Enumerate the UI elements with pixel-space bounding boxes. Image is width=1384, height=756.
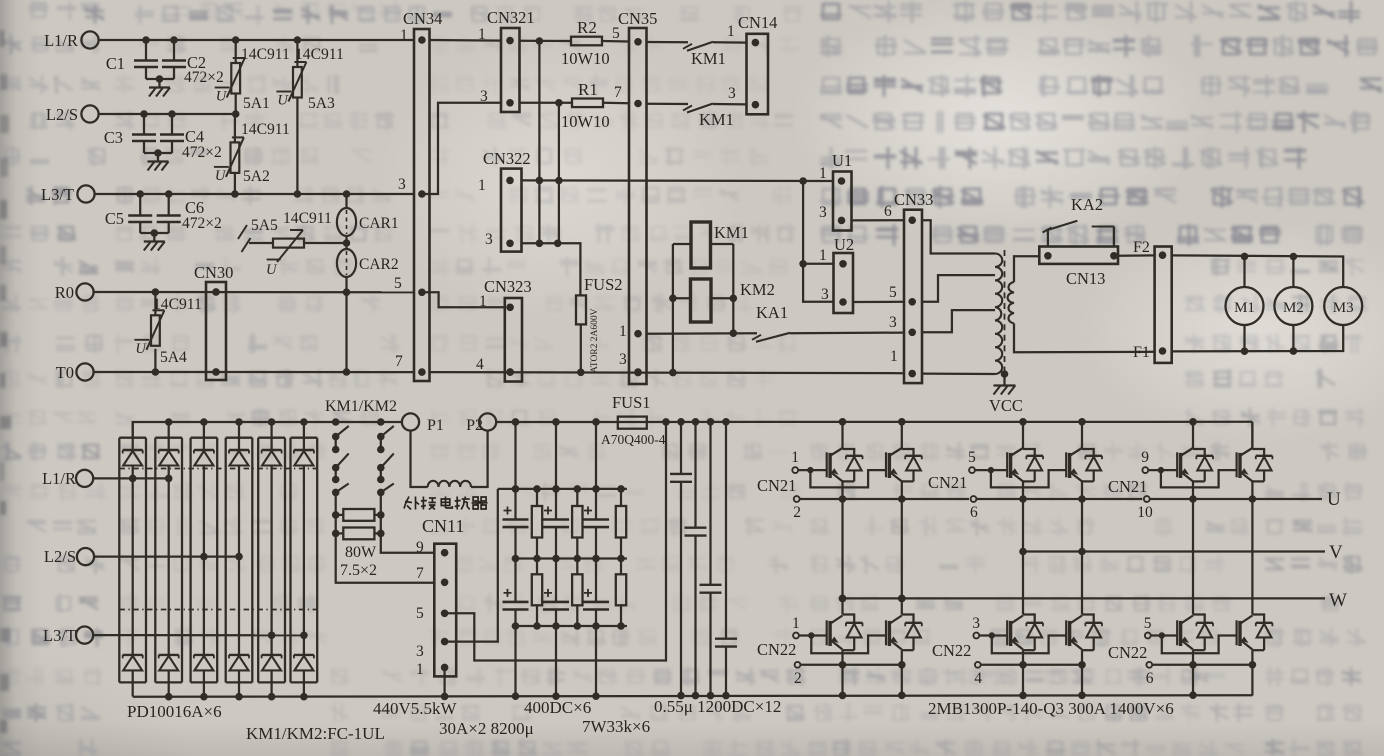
svg-text:440V5.5kW: 440V5.5kW	[373, 699, 458, 718]
pin 1	[752, 39, 760, 47]
svg-text:CN322: CN322	[483, 149, 531, 168]
svg-text:1: 1	[791, 449, 799, 466]
svg-text:7: 7	[614, 84, 622, 101]
capacitor C5	[139, 194, 141, 216]
junction	[152, 288, 160, 296]
contact chain KM1/KM2	[332, 418, 340, 426]
svg-text:10W10: 10W10	[561, 49, 610, 68]
wire feed from plus bus	[555, 422, 557, 489]
svg-text:3: 3	[398, 176, 406, 193]
reactor (external)	[428, 481, 471, 487]
pin 7	[634, 100, 642, 108]
svg-text:5: 5	[968, 449, 976, 466]
svg-text:CAR2: CAR2	[359, 256, 399, 273]
connector CN14	[747, 34, 769, 115]
wire CN11-5 to plus bus	[445, 422, 666, 661]
svg-text:472×2: 472×2	[184, 69, 224, 86]
pin 1	[506, 177, 514, 185]
wire feed from plus bus	[514, 422, 516, 489]
contact KM1 row1	[683, 44, 692, 49]
svg-text:3: 3	[619, 351, 627, 368]
resistor charge R 80W b	[343, 528, 374, 540]
diode D4 bottom	[229, 654, 249, 656]
diode module D4	[226, 437, 253, 439]
varistor 5A1	[235, 40, 237, 63]
varistor 5A2	[234, 114, 236, 142]
pin 1	[506, 304, 514, 312]
wire emitter row group2	[976, 498, 1142, 500]
svg-text:3: 3	[821, 286, 829, 303]
pin 2	[1110, 252, 1118, 260]
emitter pin CN21-6	[971, 496, 977, 502]
svg-text:KM1/KM2: KM1/KM2	[325, 398, 397, 415]
svg-text:5A4: 5A4	[160, 349, 187, 366]
bleed resistor lower 1	[536, 559, 538, 575]
svg-text:CN22: CN22	[757, 640, 796, 659]
wire feed to minus bus	[595, 626, 597, 696]
svg-text:PD10016A×6: PD10016A×6	[127, 702, 222, 721]
wire module 1 anode lead	[132, 670, 134, 696]
svg-text:5: 5	[1144, 615, 1152, 632]
ground VCC	[1003, 374, 1005, 386]
svg-text:5: 5	[612, 25, 620, 42]
svg-text:U: U	[215, 168, 227, 184]
capacitor C1	[145, 40, 147, 61]
varistor 5A4	[154, 292, 156, 315]
wire coil right vertical	[732, 244, 734, 333]
svg-text:CN22: CN22	[932, 641, 971, 660]
terminal L1/R	[81, 31, 98, 48]
svg-text:14C911: 14C911	[295, 46, 344, 63]
emitter feet group1	[841, 650, 843, 695]
junction	[268, 632, 276, 640]
cap bank bottom rail	[512, 625, 627, 627]
wire	[345, 236, 347, 249]
wire phase T	[93, 634, 304, 636]
svg-text:1: 1	[727, 23, 735, 40]
pin 1	[1044, 252, 1052, 260]
diode D5 top	[270, 422, 272, 450]
wire emitter row lower group1	[800, 664, 901, 666]
capacitor C6	[168, 194, 170, 216]
svg-text:3: 3	[485, 231, 493, 248]
pin 7	[418, 368, 426, 376]
svg-text:P1: P1	[427, 417, 444, 434]
svg-text:1: 1	[890, 348, 898, 365]
connector U2	[834, 253, 854, 313]
current sensor CAR2	[337, 249, 356, 277]
gate tie module b lower group1	[811, 636, 886, 654]
svg-text:U: U	[216, 89, 228, 105]
svg-text:KM1: KM1	[714, 223, 749, 242]
svg-text:14C911: 14C911	[153, 296, 202, 313]
wire motor stubs	[1243, 256, 1245, 287]
connector CN321	[501, 28, 520, 112]
wire to KM1 contact	[647, 41, 689, 44]
svg-text:KM1/KM2:FC-1UL: KM1/KM2:FC-1UL	[246, 724, 385, 743]
pin 4	[506, 368, 514, 376]
svg-text:KA2: KA2	[1071, 195, 1103, 214]
spark gap lead	[238, 225, 247, 239]
svg-text:P2: P2	[466, 417, 483, 434]
wire	[790, 331, 904, 334]
pin CN30-1	[212, 288, 220, 296]
diode module D5	[258, 437, 285, 439]
pin 1	[838, 177, 846, 185]
diode module D3	[191, 437, 218, 439]
wire module 4 anode lead	[238, 670, 240, 696]
wire secondary top	[1014, 256, 1039, 282]
wire T0 bus	[94, 371, 414, 373]
wire cap common	[146, 78, 174, 80]
svg-text:U: U	[266, 262, 278, 278]
wire feed to minus bus	[555, 626, 557, 696]
junction	[669, 295, 677, 303]
wire L3/T bus	[95, 193, 414, 195]
svg-text:3: 3	[728, 85, 736, 102]
emitter drop group3	[1192, 499, 1194, 615]
transformer T1 primary	[988, 252, 995, 254]
wire module 2 anode lead	[168, 670, 170, 696]
terminal P1	[402, 413, 419, 430]
wire cap common	[140, 232, 169, 234]
pin 7	[441, 579, 449, 587]
pin 5	[441, 610, 449, 618]
wire to KM1 contact	[647, 103, 689, 106]
diode module D1	[119, 437, 146, 439]
svg-text:5A3: 5A3	[308, 95, 335, 112]
wire emitter row group3	[1150, 498, 1322, 500]
capacitor bank C1 upper	[514, 489, 516, 520]
diode D2 bottom	[159, 654, 179, 656]
gate tie module b lower group2	[992, 636, 1066, 654]
emitter pin CN21-10	[1144, 496, 1150, 502]
wire CN33-1 to transformer bottom	[922, 372, 995, 375]
module boundary dash-dot lower	[119, 609, 317, 611]
svg-text:5: 5	[394, 275, 402, 292]
pin 5	[908, 298, 916, 306]
svg-text:CN30: CN30	[194, 263, 233, 282]
junction	[506, 368, 514, 376]
pin 3	[418, 190, 426, 198]
pin 3	[441, 638, 449, 646]
junction	[154, 149, 162, 157]
IGBT upper group2 module b	[1081, 422, 1083, 449]
svg-text:R0: R0	[55, 283, 74, 302]
svg-text:L3/T: L3/T	[43, 626, 76, 645]
emitter pin CN22-6	[1146, 662, 1152, 668]
gate tie module b lower group3	[1162, 636, 1237, 654]
connector CN35	[629, 28, 647, 384]
pin 3	[908, 329, 916, 337]
junction	[536, 37, 544, 45]
gate tie module b group3	[1161, 470, 1237, 487]
wire CN34-1 to CN321-1	[430, 39, 502, 42]
svg-text:C1: C1	[106, 54, 125, 73]
wire module 3 anode lead	[203, 670, 205, 696]
wire coil left vertical	[672, 244, 674, 373]
svg-text:6: 6	[970, 504, 978, 521]
pin 1	[506, 37, 514, 45]
svg-text:1: 1	[400, 27, 408, 44]
wire coil leads	[673, 243, 691, 245]
svg-text:1: 1	[819, 247, 827, 264]
svg-text:3: 3	[819, 204, 827, 221]
junction	[142, 36, 150, 44]
IGBT lower group3 module b	[1252, 615, 1264, 623]
svg-text:KA1: KA1	[756, 303, 788, 322]
junction	[152, 368, 160, 376]
terminal P2	[479, 413, 496, 430]
junction	[129, 475, 137, 483]
svg-text:R1: R1	[578, 80, 598, 99]
svg-text:14C911: 14C911	[241, 121, 290, 138]
svg-text:2: 2	[794, 670, 802, 687]
diode D1 bottom	[123, 654, 143, 656]
svg-text:14C911: 14C911	[283, 210, 332, 227]
contact KA1	[752, 335, 761, 340]
wire CN11-3 to cap rail	[445, 489, 498, 642]
contact KA2	[1047, 229, 1049, 247]
capacitor bank C3 lower	[595, 559, 597, 602]
wire	[602, 40, 629, 43]
junction	[136, 190, 144, 198]
motor M3	[1324, 287, 1362, 325]
wire CN34-5 jog to CN323-1	[422, 292, 505, 307]
bleed resistor lower 3	[620, 559, 622, 575]
wire left column to CN11-7	[336, 533, 435, 582]
wire module 1 center	[132, 466, 134, 655]
diode module D6	[291, 437, 318, 439]
pin 9	[441, 549, 449, 557]
pin 1	[441, 664, 449, 672]
connector U1	[833, 172, 852, 231]
svg-text:R2: R2	[577, 18, 597, 37]
motor M2	[1274, 287, 1312, 325]
wire motor stubs	[1243, 325, 1245, 351]
diode D1 top	[132, 422, 134, 450]
wire L1/R bus	[99, 39, 414, 41]
pin 5	[418, 289, 426, 297]
wire secondary bottom	[1014, 323, 1155, 352]
junction	[200, 553, 208, 561]
connector CN323	[505, 298, 522, 382]
wire	[345, 277, 347, 372]
wire vertical	[558, 103, 560, 244]
svg-text:7: 7	[416, 565, 424, 582]
junction	[156, 75, 164, 83]
capacitor bank C3 upper	[595, 489, 597, 520]
svg-text:CN13: CN13	[1066, 269, 1105, 288]
svg-text:5: 5	[416, 605, 424, 622]
wire CN13 to F2	[1118, 254, 1155, 257]
pin 6	[908, 216, 916, 224]
pin 3	[506, 240, 514, 248]
svg-text:0.55μ 1200DC×12: 0.55μ 1200DC×12	[654, 697, 781, 716]
bleed resistor upper 3	[620, 489, 622, 506]
svg-text:KM1: KM1	[691, 49, 726, 68]
wire R2 row	[520, 40, 572, 42]
svg-text:1: 1	[819, 165, 827, 182]
svg-text:C5: C5	[105, 209, 124, 228]
svg-text:1: 1	[792, 615, 800, 632]
wire CN33-5 to transformer tap	[922, 275, 988, 302]
svg-text:FUS2: FUS2	[584, 275, 623, 294]
capacitor C4	[171, 114, 173, 135]
capacitor C2	[173, 40, 175, 61]
wire emitter row group1	[800, 498, 969, 500]
svg-text:CN21: CN21	[757, 476, 796, 495]
wire row D	[522, 243, 581, 295]
relay coil KM2	[691, 279, 712, 322]
svg-text:5A1: 5A1	[243, 95, 270, 112]
wire plus rail end into collector	[1251, 422, 1253, 449]
svg-text:CAR1: CAR1	[359, 215, 399, 232]
wire row C to U1	[522, 179, 834, 182]
svg-text:6: 6	[884, 203, 892, 220]
svg-text:2: 2	[793, 504, 801, 521]
svg-text:400DC×6: 400DC×6	[524, 698, 591, 717]
wire coil leads	[673, 297, 691, 299]
terminal L1/R lower	[76, 470, 93, 487]
svg-text:3: 3	[889, 314, 897, 331]
svg-text:14C911: 14C911	[241, 46, 290, 63]
pin 3	[752, 101, 760, 109]
module boundary dash-dot upper	[119, 468, 317, 470]
svg-text:U2: U2	[834, 235, 854, 254]
pin 5	[634, 38, 642, 46]
connector CN33	[904, 210, 922, 383]
wire feed to minus bus	[514, 626, 516, 696]
wire R1 row	[520, 102, 573, 104]
svg-text:L3/T: L3/T	[41, 185, 74, 204]
capacitor bank C2 upper	[555, 489, 557, 520]
svg-text:T0: T0	[56, 363, 74, 382]
svg-text:U1: U1	[832, 151, 852, 170]
svg-text:CN22: CN22	[1108, 643, 1147, 662]
gate pin CN22-1	[793, 633, 799, 639]
junction	[799, 260, 807, 268]
svg-text:CN34: CN34	[403, 9, 442, 28]
svg-text:CN14: CN14	[738, 13, 777, 32]
svg-text:5A2: 5A2	[243, 168, 270, 185]
wire motor bottom bus	[1172, 325, 1344, 351]
wire phase S	[94, 555, 239, 557]
wire	[713, 41, 747, 44]
terminal L3/T	[77, 185, 94, 202]
pin 1	[908, 370, 916, 378]
emitter pin CN22-4	[975, 662, 981, 668]
diode D3 top	[203, 422, 205, 450]
fuse FUS2	[576, 295, 586, 324]
connector CN30	[206, 282, 226, 380]
IGBT lower group1 module a	[843, 615, 855, 623]
wire reactor to P2	[471, 431, 488, 488]
svg-text:4: 4	[476, 356, 484, 373]
diode module D2	[155, 437, 182, 439]
svg-text:10W10: 10W10	[561, 112, 610, 131]
wire U1/U2 left vertical	[803, 181, 833, 302]
wire FUS2 bottom	[580, 325, 582, 373]
svg-text:3: 3	[416, 643, 424, 660]
wire emitter row lower group3	[1152, 664, 1252, 666]
svg-text:F1: F1	[1133, 344, 1150, 361]
wire R0 bus	[94, 291, 414, 294]
svg-text:M3: M3	[1333, 300, 1354, 316]
pin 3	[506, 99, 514, 107]
pin F1	[1159, 347, 1167, 355]
svg-text:KM2: KM2	[740, 280, 775, 299]
resistor charge R 80W a	[343, 509, 374, 521]
svg-text:6: 6	[1146, 670, 1154, 687]
svg-text:5: 5	[889, 284, 897, 301]
gate tie module b group1	[810, 470, 886, 487]
svg-text:1: 1	[416, 661, 424, 678]
dc minus bus	[133, 695, 1253, 697]
wire vertical	[538, 41, 540, 243]
gate pin CN22-5	[1145, 633, 1151, 639]
wire W line	[843, 597, 1326, 599]
wire	[713, 103, 747, 106]
terminal block F	[1155, 247, 1172, 363]
svg-text:L2/S: L2/S	[44, 547, 76, 566]
connector CN322	[501, 169, 522, 252]
svg-text:CN35: CN35	[618, 9, 657, 28]
motor M1	[1226, 287, 1264, 325]
junction	[151, 229, 159, 237]
svg-text:M2: M2	[1283, 300, 1304, 316]
junction	[536, 240, 544, 248]
terminal L3/T lower	[76, 627, 93, 644]
junction	[662, 418, 670, 426]
IGBT lower group3 module a	[1193, 615, 1205, 623]
transformer T1 secondary	[1008, 282, 1014, 323]
svg-text:472×2: 472×2	[182, 144, 222, 161]
pin 1	[839, 260, 847, 268]
junction	[1241, 347, 1249, 355]
junction	[1241, 253, 1249, 261]
terminal L2/S lower	[77, 548, 94, 565]
junction	[165, 418, 173, 426]
svg-text:9: 9	[1141, 449, 1149, 466]
varistor 5A5	[249, 242, 273, 244]
svg-text:CN21: CN21	[1108, 477, 1147, 496]
bleed resistor upper 2	[576, 489, 578, 506]
IGBT upper group2 module a	[1022, 422, 1024, 449]
IGBT lower group2 module b	[1082, 615, 1094, 623]
diode D3 bottom	[194, 654, 214, 656]
emitter feet group3	[1192, 650, 1194, 695]
snubber cap 1	[680, 422, 682, 474]
wire right column to CN11-9	[381, 533, 435, 552]
wire L2/S bus	[99, 113, 236, 115]
wire CN11-1 to minus bus	[443, 667, 445, 696]
wire P1 down to reactor	[411, 431, 428, 487]
gate tie module b group2	[991, 470, 1066, 487]
cap bank top rail	[498, 488, 627, 490]
junction	[140, 110, 148, 118]
svg-text:10: 10	[1137, 504, 1153, 521]
diode D6 top	[303, 422, 305, 450]
bleed resistor upper 1	[536, 489, 538, 506]
pin 3	[634, 368, 642, 376]
gate pin CN21-5	[969, 467, 975, 473]
wire emitter row lower group2	[981, 664, 1082, 666]
capacitor C3	[143, 114, 145, 135]
svg-text:L1/R: L1/R	[42, 469, 76, 488]
svg-text:M1: M1	[1234, 300, 1255, 316]
junction	[555, 99, 563, 107]
